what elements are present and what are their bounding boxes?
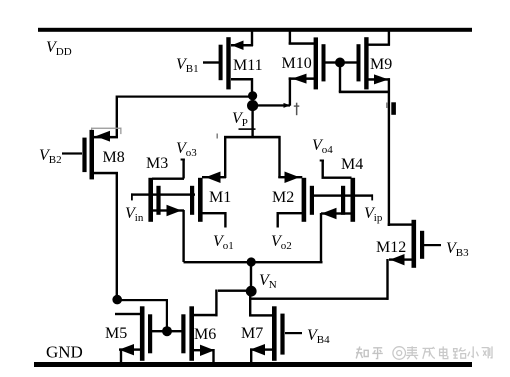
- svg-text:M6: M6: [194, 326, 216, 343]
- svg-text:VB4: VB4: [307, 327, 330, 346]
- svg-text:M4: M4: [341, 156, 363, 173]
- svg-text:M3: M3: [146, 155, 168, 172]
- svg-text:VDD: VDD: [46, 39, 72, 58]
- svg-text:VB3: VB3: [446, 240, 469, 259]
- svg-text:M9: M9: [370, 56, 392, 73]
- svg-text:M11: M11: [233, 57, 263, 74]
- svg-text:Vo1: Vo1: [213, 233, 234, 252]
- svg-text:M1: M1: [209, 189, 231, 206]
- svg-text:VB1: VB1: [176, 56, 199, 75]
- svg-text:VP: VP: [232, 110, 248, 129]
- svg-text:VN: VN: [259, 272, 277, 291]
- svg-text:M2: M2: [272, 189, 294, 206]
- svg-text:M10: M10: [282, 55, 312, 72]
- svg-text:M12: M12: [376, 239, 406, 256]
- svg-text:Vo4: Vo4: [312, 137, 333, 156]
- svg-text:M5: M5: [105, 325, 127, 342]
- svg-text:GND: GND: [46, 343, 83, 362]
- svg-text:Vin: Vin: [125, 205, 144, 224]
- svg-text:Vip: Vip: [364, 205, 383, 224]
- svg-text:VB2: VB2: [39, 147, 62, 166]
- svg-text:Vo3: Vo3: [176, 140, 197, 159]
- svg-text:M7: M7: [241, 325, 263, 342]
- svg-text:Vo2: Vo2: [271, 233, 292, 252]
- svg-text:M8: M8: [103, 149, 125, 166]
